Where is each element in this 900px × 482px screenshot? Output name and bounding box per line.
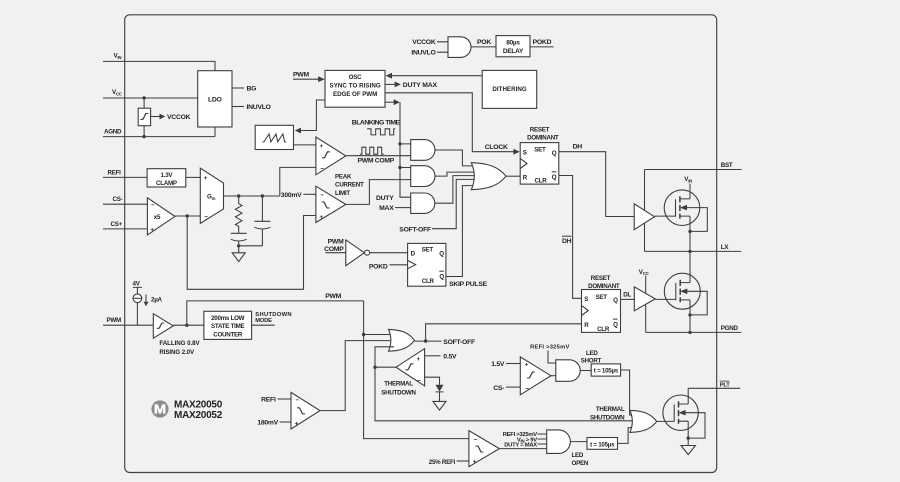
dithering block bbox=[482, 70, 537, 108]
wire timer A to OR3 bbox=[621, 370, 636, 415]
pin CS+ bbox=[103, 221, 147, 229]
svg-text:VCC: VCC bbox=[639, 269, 650, 276]
svg-text:DITHERING: DITHERING bbox=[492, 86, 526, 93]
net VCCOK label with arrow bbox=[151, 114, 191, 121]
svg-text:CLR: CLR bbox=[535, 177, 548, 184]
comparator PEAK CURRENT LIMIT bbox=[316, 174, 364, 223]
wire pwm comp output to AND1 bbox=[346, 155, 411, 157]
buffer PWM schmitt bbox=[153, 314, 200, 357]
svg-text:FALLING 0.8V: FALLING 0.8V bbox=[159, 340, 200, 347]
ground PLT source bbox=[681, 446, 695, 455]
wire A1 out to OR1 bbox=[435, 150, 476, 166]
and-gate A2 bbox=[411, 166, 435, 187]
wire high driver to gate bbox=[655, 215, 676, 217]
latch U3 reset dominant bbox=[582, 275, 621, 333]
svg-text:PWM: PWM bbox=[107, 317, 121, 324]
net REFI gt 325mV to and-gate A4 bbox=[530, 345, 569, 363]
comparator REFI 180mV bbox=[257, 392, 320, 429]
svg-text:BST: BST bbox=[721, 162, 733, 169]
svg-text:POKD: POKD bbox=[533, 39, 552, 46]
wire 25% comp to A5 bbox=[499, 448, 546, 450]
pin PLT bbox=[688, 381, 740, 388]
svg-text:THERMAL: THERMAL bbox=[384, 381, 413, 388]
svg-text:SET: SET bbox=[422, 247, 434, 254]
pin PWM bbox=[103, 317, 153, 325]
net SHUTDOWN MODE bbox=[252, 312, 292, 325]
wire thermal out to OR2 and OR3 bbox=[373, 347, 635, 421]
svg-text:DUTY = MAX: DUTY = MAX bbox=[504, 443, 537, 449]
and-gate A4 LED SHORT bbox=[556, 350, 602, 381]
net POKD bbox=[530, 39, 554, 47]
svg-text:CLR: CLR bbox=[597, 326, 610, 333]
net DL bbox=[621, 292, 635, 300]
svg-text:VIN: VIN bbox=[684, 176, 692, 183]
driver high side bbox=[634, 204, 654, 230]
wire CLOCK bbox=[385, 93, 520, 155]
net DH bar bbox=[559, 176, 582, 299]
pin REFI bbox=[103, 169, 147, 177]
svg-text:SKIP PULSE: SKIP PULSE bbox=[449, 281, 488, 288]
svg-text:S: S bbox=[584, 296, 588, 303]
wire OR2 output SOFT-OFF bbox=[414, 339, 475, 346]
pin LX bbox=[645, 244, 742, 253]
svg-text:VIN: VIN bbox=[114, 53, 122, 60]
or-gate OR2 soft-off bbox=[389, 329, 415, 351]
and-gate A3 bbox=[376, 193, 435, 213]
net DUTY MAX out bbox=[385, 82, 438, 90]
svg-text:200ms LOW: 200ms LOW bbox=[211, 315, 245, 322]
svg-text:PWM: PWM bbox=[325, 293, 341, 300]
svg-text:RESET: RESET bbox=[591, 275, 611, 282]
svg-text:SOFT-OFF: SOFT-OFF bbox=[443, 339, 475, 346]
svg-text:PGND: PGND bbox=[721, 325, 739, 332]
net POK bbox=[471, 39, 496, 47]
amplifier Gm bbox=[200, 168, 223, 223]
comparator 25% REFI bbox=[429, 431, 500, 467]
wire dithering to OSC bbox=[386, 73, 483, 79]
svg-text:PLT: PLT bbox=[720, 382, 730, 388]
svg-text:VCCOK: VCCOK bbox=[412, 39, 436, 46]
comparator PWM COMP bbox=[316, 137, 346, 175]
latch U1 reset dominant bbox=[520, 126, 559, 184]
svg-text:MAX20052: MAX20052 bbox=[174, 410, 223, 421]
svg-text:RESET: RESET bbox=[530, 126, 550, 133]
svg-text:INUVLO: INUVLO bbox=[411, 49, 435, 56]
svg-text:DELAY: DELAY bbox=[503, 48, 524, 55]
clamp 1.3V bbox=[147, 169, 200, 187]
net INUVLO bbox=[232, 104, 271, 111]
svg-text:CS-: CS- bbox=[113, 196, 123, 203]
timer t105us B bbox=[570, 438, 617, 450]
svg-text:DH: DH bbox=[573, 144, 583, 151]
svg-text:300mV: 300mV bbox=[281, 192, 302, 199]
rail BST to driver bbox=[644, 170, 646, 252]
svg-text:MAX20050: MAX20050 bbox=[174, 400, 223, 411]
latch U2 skip pulse bbox=[408, 243, 446, 286]
svg-text:CLAMP: CLAMP bbox=[156, 180, 177, 187]
svg-text:DUTY MAX: DUTY MAX bbox=[403, 82, 438, 89]
svg-text:VCC: VCC bbox=[112, 89, 123, 96]
oscillator OSC bbox=[325, 70, 385, 107]
wire x5 branch to peak comparator bbox=[187, 216, 316, 290]
svg-text:BLANKING TIME: BLANKING TIME bbox=[352, 120, 401, 127]
driver low side bbox=[634, 287, 655, 311]
svg-text:LED: LED bbox=[586, 350, 598, 357]
svg-text:S: S bbox=[523, 150, 527, 157]
counter 200ms bbox=[204, 311, 252, 339]
svg-text:INUVLO: INUVLO bbox=[247, 104, 271, 111]
svg-text:1.3V: 1.3V bbox=[161, 172, 174, 179]
net VIN high fet bbox=[684, 176, 692, 333]
svg-text:PWM COMP: PWM COMP bbox=[358, 158, 395, 165]
svg-text:REFI: REFI bbox=[261, 397, 276, 404]
label THERMAL SHUTDOWN right bbox=[590, 406, 625, 422]
svg-text:x5: x5 bbox=[154, 214, 161, 221]
resistor compensation bbox=[235, 196, 242, 227]
or-gate OR3 fault bbox=[630, 410, 657, 432]
svg-text:RISING 2.0V: RISING 2.0V bbox=[159, 349, 195, 356]
svg-text:COUNTER: COUNTER bbox=[213, 331, 243, 338]
svg-text:PWM: PWM bbox=[328, 238, 344, 245]
comparator VCCOK monitor bbox=[138, 98, 150, 137]
svg-text:PWM: PWM bbox=[293, 71, 309, 78]
net 0.5V bbox=[425, 354, 457, 361]
wire comp to A4 bbox=[551, 375, 556, 377]
svg-text:LIMIT: LIMIT bbox=[335, 190, 350, 197]
svg-text:LX: LX bbox=[721, 244, 730, 251]
svg-text:CS+: CS+ bbox=[111, 221, 123, 228]
wire PWM branch into OR2 bbox=[364, 334, 394, 336]
wire x5 to Gm bbox=[175, 214, 200, 217]
amplifier x5 bbox=[147, 198, 175, 235]
logo maxim bbox=[151, 400, 222, 422]
and-gate A1 bbox=[411, 140, 435, 161]
wire Gm output node bbox=[224, 167, 316, 197]
net PWM into OSC bbox=[293, 71, 325, 82]
inverter PWM COMP bbox=[324, 238, 370, 265]
svg-text:4V: 4V bbox=[133, 280, 141, 287]
svg-text:VCCOK: VCCOK bbox=[167, 114, 191, 121]
pin BST bbox=[645, 162, 742, 170]
pin PGND bbox=[646, 325, 742, 334]
label BLANKING TIME bbox=[352, 120, 401, 135]
ground thermal diode bbox=[433, 401, 446, 410]
pin CS- bbox=[103, 196, 147, 204]
svg-text:THERMAL: THERMAL bbox=[596, 406, 625, 413]
svg-text:OPEN: OPEN bbox=[572, 460, 589, 467]
svg-text:REFI >325mV: REFI >325mV bbox=[530, 345, 569, 351]
svg-text:Q: Q bbox=[613, 321, 618, 328]
or-gate OR1 bbox=[471, 163, 506, 190]
diode thermal bbox=[425, 377, 444, 401]
wire low driver to gate bbox=[655, 298, 676, 300]
capacitor series bbox=[231, 227, 247, 246]
wire SOFT-OFF to OR1 bbox=[399, 179, 476, 233]
svg-text:DH: DH bbox=[562, 238, 572, 245]
svg-text:POKD: POKD bbox=[369, 264, 388, 271]
wire A2 out to OR1 bbox=[435, 172, 476, 176]
wire 180mV comp to OR2 bbox=[320, 341, 394, 411]
wire peak comp out to AND2 bbox=[346, 180, 411, 205]
delay 80us bbox=[496, 36, 530, 57]
svg-text:80µs: 80µs bbox=[506, 40, 520, 47]
wire OR1 to latch R bbox=[506, 175, 520, 177]
svg-text:25% REFI: 25% REFI bbox=[429, 459, 456, 466]
transistor Q2 low side bbox=[664, 273, 707, 316]
transistor Q3 PLT bbox=[663, 388, 705, 445]
labels and-gate A5 inputs bbox=[503, 432, 547, 449]
svg-text:SHUTDOWN: SHUTDOWN bbox=[381, 390, 416, 397]
svg-text:POK: POK bbox=[477, 39, 491, 46]
and-gate POK bbox=[411, 37, 471, 58]
wire buffer to counter bbox=[173, 324, 204, 327]
svg-text:SET: SET bbox=[534, 146, 546, 153]
svg-text:1.5V: 1.5V bbox=[491, 361, 505, 368]
svg-text:STATE TIME: STATE TIME bbox=[211, 323, 244, 330]
wire OR2 to latch U3 R bbox=[426, 324, 582, 341]
svg-text:LDO: LDO bbox=[208, 96, 222, 103]
svg-text:MAX: MAX bbox=[379, 205, 394, 212]
svg-text:REFI: REFI bbox=[108, 169, 122, 176]
svg-text:OSC: OSC bbox=[349, 74, 362, 81]
svg-text:0.5V: 0.5V bbox=[443, 354, 457, 361]
svg-text:BG: BG bbox=[247, 86, 257, 93]
svg-text:SET: SET bbox=[596, 294, 608, 301]
transistor Q1 high side bbox=[664, 190, 707, 233]
svg-text:SOFT-OFF: SOFT-OFF bbox=[399, 226, 431, 233]
wire PWM to soft-off or-gate bbox=[187, 293, 469, 438]
svg-text:CS-: CS- bbox=[493, 385, 504, 392]
svg-text:t = 105µs: t = 105µs bbox=[590, 441, 615, 448]
svg-text:Q: Q bbox=[439, 251, 444, 258]
comparator LED short 1.5V bbox=[491, 357, 551, 395]
and-gate A5 LED OPEN bbox=[547, 430, 589, 467]
svg-text:Q: Q bbox=[552, 150, 557, 157]
ground comp network bbox=[232, 246, 245, 262]
comparator thermal shutdown bbox=[381, 349, 424, 397]
svg-text:Q: Q bbox=[439, 273, 444, 280]
ramp generator bbox=[255, 125, 293, 149]
regulator LDO bbox=[198, 71, 232, 137]
svg-text:COMP: COMP bbox=[324, 246, 344, 253]
wire timer B to OR3 bbox=[618, 428, 636, 444]
wire blanking vertical to AND gates bbox=[398, 102, 410, 197]
net VCC low driver bbox=[639, 269, 650, 333]
svg-text:CURRENT: CURRENT bbox=[335, 182, 364, 189]
label PWM COMP with pulse glyph bbox=[358, 147, 395, 164]
capacitor parallel bbox=[254, 196, 270, 246]
svg-text:AGND: AGND bbox=[104, 128, 122, 135]
pin AGND bbox=[103, 128, 215, 138]
pin VCC bbox=[103, 89, 198, 100]
pin VIN bbox=[103, 53, 215, 71]
svg-text:SHUTDOWN: SHUTDOWN bbox=[590, 415, 625, 422]
wire OSC to blanking node bbox=[385, 99, 400, 105]
net DH bbox=[559, 144, 634, 217]
svg-text:Q: Q bbox=[552, 174, 557, 181]
wire inverter to D input bbox=[370, 252, 408, 254]
wire OSC to ramp generator bbox=[295, 100, 325, 133]
net POKD to latch clock bbox=[369, 264, 408, 271]
svg-text:DOMINANT: DOMINANT bbox=[527, 135, 559, 142]
svg-text:CLR: CLR bbox=[422, 278, 435, 285]
net BG bbox=[232, 86, 256, 93]
svg-text:PEAK: PEAK bbox=[335, 174, 352, 181]
timer t105us A bbox=[580, 364, 620, 376]
wire OR3 to PLT gate bbox=[657, 420, 675, 422]
svg-text:MODE: MODE bbox=[255, 318, 272, 324]
svg-text:LED: LED bbox=[572, 452, 584, 459]
label 300mV bbox=[281, 192, 316, 199]
svg-text:2µA: 2µA bbox=[151, 297, 163, 304]
wire ramp to pwm comparator bbox=[294, 144, 316, 146]
svg-text:EDGE OF PWM: EDGE OF PWM bbox=[333, 91, 377, 98]
svg-text:CLOCK: CLOCK bbox=[485, 144, 508, 151]
svg-text:DL: DL bbox=[623, 292, 631, 299]
wire A3 out to OR1 bbox=[435, 176, 476, 204]
wire SKIP PULSE to OR1 bbox=[446, 186, 476, 277]
svg-text:180mV: 180mV bbox=[257, 420, 278, 427]
node comp bottom bbox=[237, 244, 262, 247]
svg-text:t = 105µs: t = 105µs bbox=[594, 368, 619, 375]
svg-text:Q: Q bbox=[613, 297, 618, 304]
svg-text:SYNC TO RISING: SYNC TO RISING bbox=[330, 83, 381, 90]
source 4V 2uA bbox=[133, 280, 163, 325]
svg-text:DUTY: DUTY bbox=[376, 195, 394, 202]
